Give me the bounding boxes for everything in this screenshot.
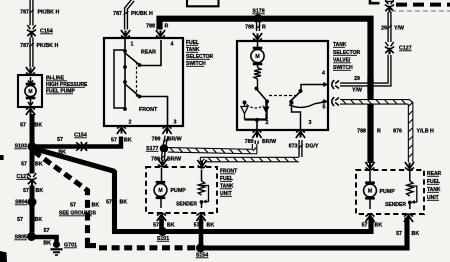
label pin 3	[174, 120, 177, 126]
svg-text:Y/LB H: Y/LB H	[417, 129, 435, 135]
label 57 BK (below S804)	[17, 217, 42, 223]
label 789 BR/W (valve pin 2)	[245, 139, 276, 145]
label 57 BK on dashed vertical	[70, 203, 99, 209]
label pin 4 (valve)	[322, 71, 325, 77]
svg-text:BK: BK	[412, 231, 420, 237]
connector C154 on horizontal ground wire	[76, 142, 88, 151]
pin 1 connector (valve top)	[253, 33, 262, 41]
svg-text:57: 57	[111, 138, 117, 144]
svg-text:BK: BK	[207, 223, 215, 229]
wire 57 BK diagonal S103 to rear-ground run	[34, 149, 371, 232]
resistor rear sender	[407, 181, 413, 196]
svg-text:1: 1	[131, 42, 134, 48]
label 29 Y/W (vertical)	[381, 26, 404, 32]
fuel tank selector switch box	[104, 38, 183, 126]
label S178	[252, 9, 265, 15]
label pin 2 (valve)	[266, 120, 269, 126]
arrow inside pump box top	[28, 77, 33, 84]
label 789 BR/W (upper)	[152, 137, 182, 143]
valve pin3 contact dot	[290, 101, 294, 105]
label C154	[40, 29, 53, 35]
svg-text:787: 787	[113, 11, 122, 17]
svg-text:57: 57	[57, 137, 63, 143]
wire 57 BK S805 to ground G701	[35, 235, 57, 241]
svg-text:57: 57	[23, 188, 29, 194]
valve rotary arc	[289, 104, 315, 108]
svg-text:57: 57	[194, 223, 200, 229]
label 788 R (right vertical)	[357, 129, 381, 135]
pin 2 connector (valve bottom)	[252, 130, 261, 138]
wire contact to collector	[266, 102, 268, 120]
resistor inside valve	[254, 65, 261, 88]
wire 789 BR/W S177 to front pump	[161, 152, 166, 161]
svg-text:57: 57	[396, 231, 402, 237]
valve switch common dot	[255, 87, 259, 91]
label 876 Y/LB H	[393, 129, 434, 135]
svg-text:3: 3	[174, 120, 177, 126]
label REAR	[141, 50, 156, 56]
connector C154 (in-line pump feed)	[27, 25, 36, 37]
splice S804	[28, 198, 37, 207]
svg-text:BK: BK	[43, 241, 51, 247]
arrow inside pump box bottom	[28, 98, 33, 106]
switch contact dots on column	[123, 49, 127, 111]
svg-text:PK/BK H: PK/BK H	[38, 10, 60, 16]
svg-text:3: 3	[309, 120, 312, 126]
label TANK SELECTOR VALVE/ SWITCH	[333, 42, 361, 71]
label S804	[15, 200, 28, 206]
svg-text:M: M	[28, 89, 32, 95]
valve arm contact dot	[265, 100, 269, 104]
svg-text:BK: BK	[167, 223, 175, 229]
dashed harness run (top right)	[396, 3, 450, 7]
wire front pump to ground pin	[160, 199, 162, 209]
svg-text:PK/BK H: PK/BK H	[37, 43, 59, 49]
label S101	[157, 236, 170, 242]
svg-text:R: R	[377, 129, 381, 135]
label C127	[16, 174, 29, 180]
pin connector into front sender	[197, 160, 206, 168]
label FRONT FUEL TANK UNIT	[220, 169, 237, 198]
wire 29 Y/W C127 to top connector	[387, 12, 392, 42]
wire 57 BK front sender to S154	[199, 219, 204, 246]
svg-text:Y/W: Y/W	[352, 88, 362, 94]
valve left contact dot	[243, 101, 247, 105]
svg-text:57: 57	[20, 123, 26, 129]
svg-text:873: 873	[289, 144, 298, 150]
valve filled triangle	[263, 103, 270, 120]
svg-text:4: 4	[322, 71, 325, 77]
wire pin 3 inside valve	[292, 104, 301, 129]
front pump ground pin	[157, 213, 166, 221]
label 57 BK right of C154	[111, 138, 132, 144]
pin 1 connector (switch)	[121, 30, 130, 38]
svg-text:R: R	[262, 25, 266, 31]
label 57 BK (to G701)	[43, 228, 51, 247]
valve dashed link (switch)	[269, 95, 296, 97]
switch arm upper (to REAR contact)	[125, 53, 141, 67]
wire 787 PK/BK H from top to connector C154	[29, 0, 34, 26]
wire front sender to ground pin	[201, 204, 203, 209]
label pin 4	[171, 42, 174, 48]
svg-text:REAR: REAR	[141, 50, 156, 56]
svg-text:789: 789	[152, 137, 161, 143]
motor M (rear pump)	[364, 182, 377, 200]
label 788 R (left)	[146, 24, 168, 30]
svg-text:787: 787	[20, 43, 29, 49]
valve switch arm	[257, 89, 267, 101]
label S103	[14, 144, 27, 150]
svg-text:M: M	[368, 189, 372, 195]
motor M (valve)	[251, 47, 264, 65]
in-line high pressure fuel pump box	[18, 75, 42, 107]
svg-text:57: 57	[153, 223, 159, 229]
wire to rear sender	[409, 171, 411, 181]
label pin 5 (valve)	[323, 105, 326, 111]
svg-text:Y/W: Y/W	[394, 26, 404, 32]
wire rear pump to ground pin	[369, 199, 371, 209]
svg-text:FRONT: FRONT	[139, 107, 158, 113]
label PUMP (rear)	[380, 189, 396, 195]
wire 876 Y/LB H hatched valve pin 5 to rear sender	[340, 100, 412, 162]
svg-text:789: 789	[245, 139, 254, 145]
wire to front sender	[201, 170, 203, 182]
label pin 2	[129, 120, 132, 126]
svg-text:2: 2	[266, 120, 269, 126]
svg-text:PK/BK H: PK/BK H	[131, 11, 153, 17]
splice S177	[160, 144, 169, 153]
wire 57 BK S103 to C127	[30, 149, 35, 174]
wire FRONT contact to pin 3	[140, 97, 168, 126]
wire pin 4 inside valve	[301, 85, 327, 91]
resistor front sender	[198, 181, 204, 195]
splice S101	[158, 227, 167, 236]
valve wiper arm	[290, 92, 301, 103]
motor M (in-line pump)	[25, 83, 36, 99]
svg-text:5: 5	[323, 105, 326, 111]
wire 57 BK pump to S103	[30, 114, 35, 144]
wire 57 BK C127 to S804	[30, 186, 35, 199]
wire to rear pump motor	[369, 171, 371, 183]
label S805	[14, 235, 27, 241]
wire 789 BR/W hatched S177 to valve pin 2	[168, 144, 256, 153]
svg-text:BK: BK	[124, 138, 132, 144]
pin 3 connector (valve bottom)	[296, 130, 305, 138]
label 57 BK (front pump)	[153, 223, 175, 229]
label FRONT	[139, 107, 158, 113]
front fuel tank unit box (dashed)	[146, 167, 217, 213]
scan blob bottom left	[0, 251, 7, 262]
switch left rail	[114, 50, 125, 108]
label IN-LINE HIGH PRESSURE FUEL PUMP	[46, 76, 88, 95]
empty label box at top	[187, 0, 219, 6]
svg-text:57: 57	[70, 203, 76, 209]
wire 29 Y/W from valve pin 4 up to C127	[340, 55, 390, 85]
label S177	[146, 146, 159, 152]
wire 57 BK solid lower ground run S154 to rear sender	[204, 218, 407, 249]
wire rear sender to ground pin	[409, 204, 411, 209]
svg-text:M: M	[158, 188, 162, 194]
svg-text:4: 4	[171, 42, 174, 48]
wire 788 R from switch pin 4 along top to rear pump	[160, 19, 371, 163]
label 787 PK/BK H (lower)	[20, 43, 58, 49]
valve hollow triangle (vacuum valve)	[241, 104, 248, 120]
wire REAR contact to pin 4	[140, 40, 162, 66]
wire 57 BK front pump to S101	[159, 219, 164, 231]
label 873 DG/Y	[289, 144, 319, 150]
label S154	[196, 253, 209, 259]
label C127 (right)	[399, 46, 412, 52]
svg-text:BK: BK	[375, 223, 383, 229]
svg-text:788: 788	[357, 129, 366, 135]
wire 57 BK dashed diagonal S103 to front-sender ground run	[34, 152, 198, 248]
splice S805	[27, 232, 36, 241]
splice S103	[28, 142, 37, 151]
switch pole column	[124, 38, 126, 109]
pin 2 connector (switch bottom)	[117, 126, 126, 134]
label SENDER (rear)	[385, 202, 406, 208]
svg-text:57: 57	[44, 228, 50, 234]
rear sender dot	[408, 201, 412, 205]
pin 5 connector (valve right)	[322, 97, 339, 106]
pin 4 connector (valve right)	[322, 80, 339, 89]
svg-text:29: 29	[354, 76, 360, 82]
pin into in-line pump box	[26, 67, 35, 75]
label 787 PK/BK H (upper)	[20, 10, 59, 16]
ground G701 symbol	[51, 241, 63, 255]
rear sender ground pin	[404, 214, 413, 222]
label 29 Y/W (horizontal)	[352, 76, 362, 94]
label FUEL TANK SELECTOR SWITCH	[186, 40, 214, 67]
pin 3 connector (switch bottom)	[162, 126, 171, 134]
pin out of pump box (ground)	[26, 107, 35, 115]
svg-text:788: 788	[245, 25, 254, 31]
label SEE GROUNDS	[59, 211, 97, 217]
wire pin1 to valve motor	[257, 41, 259, 47]
wire 788 R S178 to valve	[256, 22, 261, 31]
svg-text:787: 787	[20, 10, 29, 16]
svg-text:PUMP: PUMP	[380, 189, 396, 195]
svg-text:DG/Y: DG/Y	[306, 144, 319, 150]
label SENDER (front)	[176, 202, 197, 208]
label REAR FUEL TANK UNIT	[427, 171, 442, 201]
switch arm lower (to FRONT contact)	[125, 84, 141, 98]
label PUMP (front)	[171, 188, 187, 194]
wire 788 R continuity at crossing	[367, 77, 373, 93]
label 57 BK on vertical ground run	[106, 200, 127, 206]
svg-text:876: 876	[393, 129, 402, 135]
connector at top (to EEC harness)	[385, 0, 394, 12]
valve rotary dot (pin4 side)	[299, 89, 303, 93]
scan mark left edge	[0, 155, 4, 160]
svg-text:BK: BK	[120, 200, 128, 206]
label 57 BK (below C127)	[23, 188, 43, 194]
svg-text:BK: BK	[92, 203, 100, 209]
svg-text:SENDER: SENDER	[176, 202, 197, 208]
wire 873 DG/Y hatched to front sender	[201, 158, 299, 163]
wire 787 PK/BK H from C154 to in-line pump	[29, 38, 34, 68]
front sender ground pin	[196, 213, 205, 221]
svg-text:BK: BK	[35, 162, 43, 168]
svg-text:57: 57	[21, 162, 27, 168]
label 57 BK (rear sender)	[396, 231, 419, 237]
label 57 BK (pump ground)	[20, 123, 42, 129]
valve collector bar to pin 2	[245, 118, 268, 129]
label 789 BR/W (lower)	[151, 157, 181, 163]
svg-text:R: R	[165, 24, 169, 30]
wire 57 BK S103 to switch pin 2 (via C154)	[36, 137, 121, 147]
wire to front pump motor	[161, 168, 163, 182]
pin connector into rear sender	[405, 162, 414, 170]
label pin 1	[131, 42, 134, 48]
label 57 BK (rear pump)	[362, 223, 383, 229]
splice S178	[253, 14, 262, 23]
svg-text:PUMP: PUMP	[171, 188, 187, 194]
wire 789 BR/W switch pin 3 to S177	[163, 136, 168, 146]
svg-text:2: 2	[129, 120, 132, 126]
svg-text:29: 29	[381, 26, 387, 32]
pin connector into front pump	[158, 159, 167, 167]
svg-text:57: 57	[17, 217, 23, 223]
wire 873 DG/Y valve pin 3 down	[298, 140, 303, 157]
label G701	[64, 243, 77, 249]
connector C127 (right)	[385, 42, 394, 54]
rear sender wiper loop	[410, 186, 417, 204]
svg-text:M: M	[255, 54, 260, 60]
label 57 / BK left of C154	[57, 137, 66, 156]
wire 789 into valve pin 2	[254, 141, 258, 145]
motor M (front pump)	[154, 181, 167, 199]
wire 57 BK S804 to S805	[30, 206, 35, 233]
front sender dot	[200, 200, 204, 204]
label 57 BK (below S103)	[21, 162, 43, 168]
svg-text:SENDER: SENDER	[385, 202, 406, 208]
svg-text:BK: BK	[35, 123, 43, 129]
label pin 3 (valve)	[309, 120, 312, 126]
svg-text:788: 788	[146, 24, 155, 30]
svg-text:BK: BK	[36, 188, 44, 194]
front sender wiper loop	[202, 186, 209, 204]
label 787 PK/BK H (switch feed)	[113, 11, 153, 17]
svg-text:BR/W: BR/W	[262, 139, 276, 145]
corner bracket top right	[370, 0, 380, 3]
pin connector into rear pump	[365, 162, 374, 170]
tank selector valve box	[237, 41, 328, 130]
label 788 R (at S178)	[245, 25, 266, 31]
label 57 BK (front sender)	[194, 223, 215, 229]
splice S154	[196, 244, 205, 253]
rear fuel tank unit box (dashed)	[356, 170, 424, 214]
svg-text:BR/W: BR/W	[168, 137, 182, 143]
valve dashed link arc	[247, 105, 264, 109]
svg-text:57: 57	[362, 223, 368, 229]
svg-text:BK: BK	[35, 217, 43, 223]
rear pump ground pin	[365, 214, 374, 222]
pin 4 connector (switch)	[156, 30, 165, 38]
connector C127 (left ground)	[27, 173, 36, 185]
wire arc to pin 5	[315, 102, 328, 104]
svg-text:57: 57	[106, 200, 112, 206]
thin dashed line (top right)	[391, 10, 450, 12]
svg-text:BR/W: BR/W	[167, 157, 181, 163]
label C154 (horizontal)	[74, 133, 87, 139]
wire 787 PK/BK H into switch pin 1	[124, 0, 133, 30]
switch mechanical link (dashed)	[136, 62, 138, 97]
